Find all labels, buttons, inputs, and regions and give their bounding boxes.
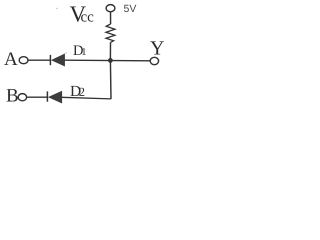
resistor R — [106, 24, 115, 42]
terminal A — [19, 57, 28, 64]
wire D2 to corner — [62, 97, 111, 99]
wire D1 to Y — [65, 59, 151, 62]
diode D2 cathode bar — [46, 91, 48, 101]
terminal 5V supply — [106, 5, 115, 12]
speckle — [56, 8, 57, 9]
wire resistor to node — [109, 42, 111, 60]
svg-text:2: 2 — [79, 85, 85, 99]
terminal B — [18, 94, 26, 101]
wire node to B-row corner — [109, 60, 112, 99]
svg-text:A: A — [4, 49, 18, 70]
svg-text:cc: cc — [81, 10, 95, 26]
svg-text:Y: Y — [150, 37, 164, 59]
node junction dot — [108, 58, 113, 63]
wire supply to resistor — [110, 12, 112, 24]
svg-text:5V: 5V — [124, 3, 137, 15]
speckle — [65, 52, 66, 53]
diode D1 triangle — [52, 54, 65, 66]
svg-text:B: B — [6, 86, 19, 107]
wire B to D2 — [27, 96, 47, 98]
svg-text:1: 1 — [81, 47, 86, 58]
diode D2 triangle — [49, 91, 62, 103]
diode D1 cathode bar — [49, 55, 51, 65]
terminal Y — [150, 57, 158, 64]
wire A to D1 — [28, 59, 50, 61]
label Vcc — [70, 2, 95, 27]
